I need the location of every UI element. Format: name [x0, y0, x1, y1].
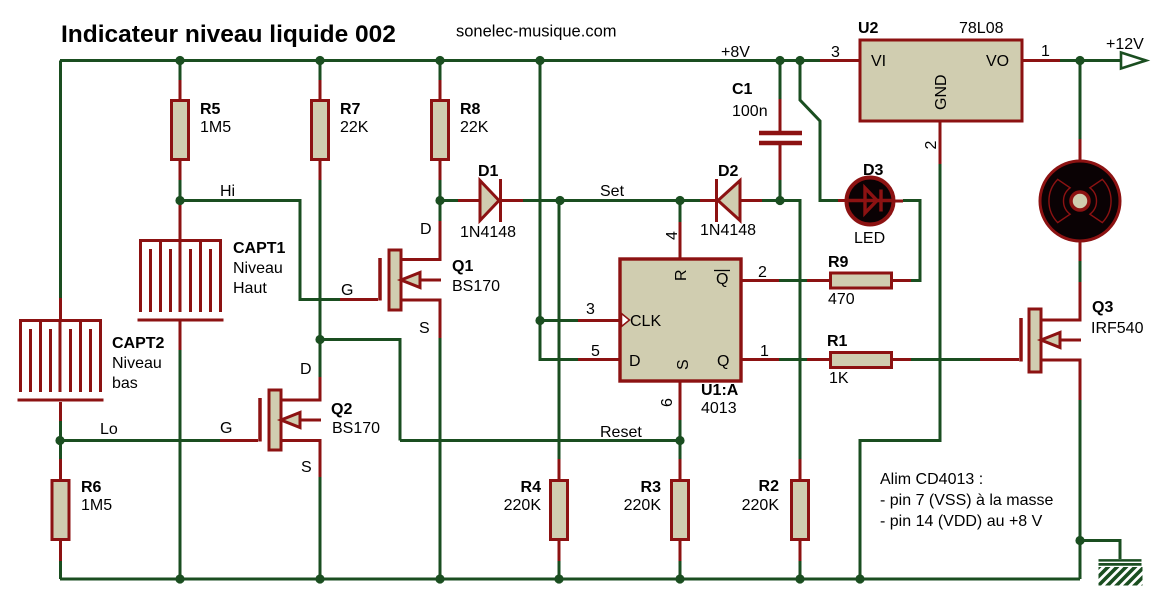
wire U2 VO pin: [1022, 59, 1060, 62]
svg-text:Q: Q: [716, 271, 728, 288]
wire Set node drop x=559 to R4: [558, 201, 561, 460]
svg-text:+8V: +8V: [721, 44, 750, 61]
wire bottom ground rail: [60, 578, 1080, 581]
svg-text:Q3: Q3: [1092, 299, 1113, 316]
svg-text:R3: R3: [641, 479, 662, 496]
svg-text:1: 1: [1041, 43, 1050, 60]
svg-text:R8: R8: [460, 101, 481, 118]
motor M: [1079, 61, 1082, 140]
svg-text:1N4148: 1N4148: [460, 224, 516, 241]
wire R1 to Q3 gate: [911, 358, 980, 361]
capacitor C1: [779, 61, 782, 100]
svg-text:R2: R2: [759, 478, 780, 495]
svg-text:+12V: +12V: [1106, 36, 1144, 53]
wire +8V top rail: [60, 59, 820, 62]
svg-text:- pin 14 (VDD) au +8 V: - pin 14 (VDD) au +8 V: [880, 513, 1043, 530]
svg-text:C1: C1: [732, 81, 753, 98]
diode D1: [440, 199, 458, 202]
svg-text:78L08: 78L08: [959, 20, 1004, 37]
svg-text:BS170: BS170: [452, 278, 500, 295]
svg-text:1: 1: [760, 343, 769, 360]
wire Q2 drain to Reset corner: [320, 340, 400, 441]
wire Reset line: [400, 439, 680, 442]
svg-text:Indicateur niveau liquide 002: Indicateur niveau liquide 002: [61, 21, 396, 48]
wire rail drop x=540 to CLK and D pin: [539, 61, 542, 321]
wire U1 pin 4 (R): [679, 201, 682, 223]
svg-text:22K: 22K: [460, 119, 489, 136]
svg-text:Alim CD4013 :: Alim CD4013 :: [880, 471, 983, 488]
node +12V arrow: [1121, 53, 1146, 69]
svg-text:R6: R6: [81, 479, 102, 496]
svg-text:1M5: 1M5: [81, 497, 112, 514]
resistor R4: [558, 459, 561, 479]
resistor R3: [679, 441, 682, 460]
svg-text:1N4148: 1N4148: [700, 222, 756, 239]
svg-text:R1: R1: [827, 333, 848, 350]
svg-text:G: G: [220, 420, 232, 437]
svg-text:S: S: [675, 359, 692, 370]
wire U1 pin 5 (D): [578, 358, 620, 361]
svg-text:D: D: [420, 221, 432, 238]
svg-text:CAPT2: CAPT2: [112, 335, 165, 352]
svg-text:S: S: [419, 320, 430, 337]
svg-text:470: 470: [828, 291, 855, 308]
svg-text:3: 3: [586, 301, 595, 318]
transistor Q2: [220, 439, 258, 442]
wire Hi line: [180, 201, 340, 300]
svg-text:R: R: [673, 269, 690, 281]
svg-text:1K: 1K: [829, 370, 849, 387]
wire left rail vertical: [59, 61, 62, 299]
wire U1 pin 6 (S): [679, 381, 682, 420]
svg-text:- pin 7 (VSS) à la masse: - pin 7 (VSS) à la masse: [880, 492, 1054, 509]
svg-text:Set: Set: [600, 183, 625, 200]
svg-text:4: 4: [664, 231, 681, 240]
wire top rail right segment VO to arrow: [1060, 59, 1121, 62]
svg-text:4013: 4013: [701, 400, 737, 417]
svg-text:3: 3: [831, 44, 840, 61]
svg-text:D3: D3: [863, 162, 884, 179]
transistor Q1: [340, 298, 378, 301]
resistor R1: [807, 358, 829, 361]
svg-text:220K: 220K: [742, 497, 780, 514]
wire Set extension to x=800 drop: [780, 201, 800, 460]
svg-text:D1: D1: [478, 163, 499, 180]
svg-text:R5: R5: [200, 101, 221, 118]
svg-text:220K: 220K: [504, 497, 542, 514]
svg-text:U1:A: U1:A: [701, 382, 739, 399]
svg-text:Reset: Reset: [600, 424, 642, 441]
svg-text:Q1: Q1: [452, 258, 473, 275]
LED D3: [838, 199, 846, 202]
svg-text:D2: D2: [718, 163, 739, 180]
svg-text:2: 2: [758, 264, 767, 281]
svg-text:R4: R4: [521, 479, 542, 496]
svg-text:LED: LED: [854, 230, 885, 247]
svg-text:Niveau: Niveau: [233, 260, 283, 277]
svg-text:Q2: Q2: [331, 401, 352, 418]
resistor R8: [439, 61, 442, 81]
svg-text:IRF540: IRF540: [1091, 320, 1144, 337]
resistor R5: [179, 61, 182, 81]
svg-text:5: 5: [591, 343, 600, 360]
transistor Q3: [980, 358, 1019, 361]
svg-text:220K: 220K: [624, 497, 662, 514]
wire U2 VI pin: [820, 59, 860, 62]
svg-text:22K: 22K: [340, 119, 369, 136]
wire U1 pin 3 (CLK): [540, 319, 578, 322]
wire Set line: [560, 199, 680, 202]
wire Lo line: [60, 439, 220, 442]
resistor R7: [319, 61, 322, 81]
svg-text:U2: U2: [858, 20, 879, 37]
resistor R2: [799, 459, 802, 479]
svg-text:G: G: [341, 282, 353, 299]
svg-text:2: 2: [923, 141, 940, 150]
svg-text:6: 6: [659, 398, 676, 407]
svg-text:D: D: [300, 361, 312, 378]
wire ground stub: [1080, 541, 1120, 560]
sensor CAPT1: [179, 204, 182, 240]
resistor R9: [807, 279, 829, 282]
flip-flop U1:A 4013: [620, 259, 741, 381]
svg-text:Lo: Lo: [100, 421, 118, 438]
svg-text:VO: VO: [986, 53, 1009, 70]
svg-text:Q: Q: [717, 353, 729, 370]
svg-text:1M5: 1M5: [200, 119, 231, 136]
svg-text:CAPT1: CAPT1: [233, 240, 286, 257]
svg-text:VI: VI: [871, 53, 886, 70]
svg-text:bas: bas: [112, 375, 138, 392]
svg-text:BS170: BS170: [332, 420, 380, 437]
svg-text:S: S: [301, 459, 312, 476]
svg-text:CLK: CLK: [630, 313, 661, 330]
regulator U2: [860, 40, 1022, 121]
sensor CAPT2: [59, 298, 62, 321]
wire U1 pin 1 (Q): [741, 358, 779, 361]
wire U1 pin 2 (Qbar): [741, 279, 779, 282]
resistor R6: [59, 441, 62, 460]
svg-text:sonelec-musique.com: sonelec-musique.com: [456, 23, 617, 41]
wire U2 GND pin and route to ground rail: [939, 121, 942, 164]
svg-text:Hi: Hi: [220, 183, 235, 200]
svg-text:D: D: [629, 353, 641, 370]
wire LED feed (diagonal from +8V rail): [800, 61, 838, 201]
svg-text:Niveau: Niveau: [112, 355, 162, 372]
svg-text:R9: R9: [828, 254, 849, 271]
svg-text:GND: GND: [933, 74, 950, 110]
svg-text:Haut: Haut: [233, 280, 267, 297]
svg-text:R7: R7: [340, 101, 361, 118]
diode D2: [680, 199, 700, 202]
svg-text:100n: 100n: [732, 103, 768, 120]
